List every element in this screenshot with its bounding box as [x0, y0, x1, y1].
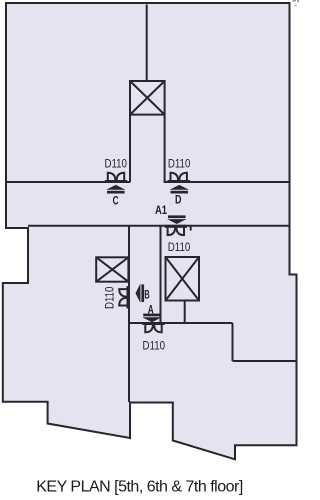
svg-text:D110: D110 — [104, 157, 126, 170]
svg-text:KEY PLAN [5th, 6th & 7th floor: KEY PLAN [5th, 6th & 7th floor] — [36, 479, 243, 496]
svg-text:D110: D110 — [168, 157, 190, 170]
svg-text:D110: D110 — [168, 241, 190, 254]
svg-text:A1: A1 — [155, 204, 167, 217]
svg-text:D: D — [175, 195, 181, 207]
svg-text:B: B — [144, 289, 149, 302]
svg-text:C: C — [113, 195, 119, 208]
svg-text:D110: D110 — [104, 287, 117, 309]
svg-text:A: A — [148, 304, 154, 317]
svg-text:D110: D110 — [143, 339, 165, 352]
